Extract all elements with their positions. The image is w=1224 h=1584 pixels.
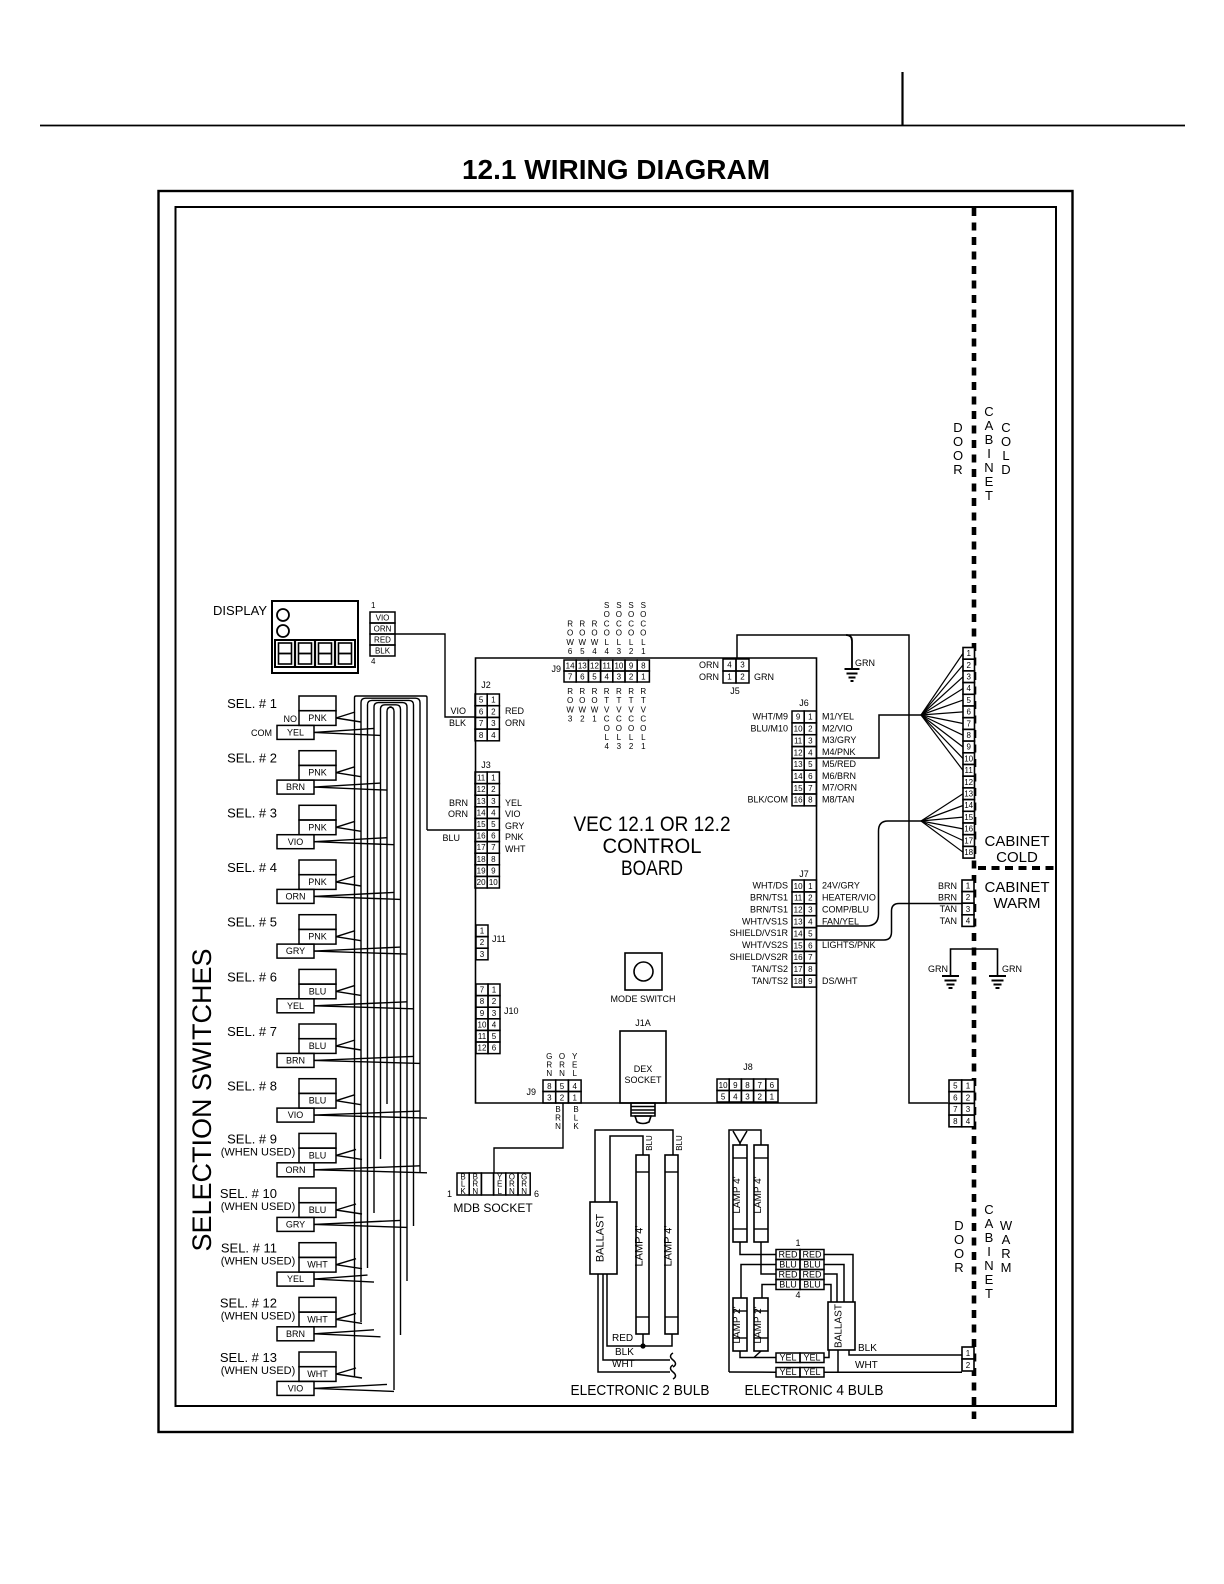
svg-text:B: B: [985, 1230, 994, 1245]
wire BLU row2 to lamp2ft A: [741, 1265, 776, 1299]
wire RED row1 to ballast: [824, 1255, 853, 1303]
svg-text:T: T: [985, 1286, 993, 1301]
svg-text:4: 4: [604, 673, 609, 682]
svg-text:TAN/TS2: TAN/TS2: [752, 976, 788, 986]
terminal block RED/BLU: [776, 1250, 824, 1290]
svg-text:1: 1: [641, 647, 646, 656]
svg-text:5: 5: [953, 1082, 958, 1091]
wires SEL #11: [314, 1259, 374, 1282]
svg-text:9: 9: [480, 1009, 485, 1018]
wire BLU row4 to lamp2ft B: [762, 1285, 776, 1299]
svg-text:2: 2: [492, 997, 497, 1006]
wires SEL #10: [314, 1204, 407, 1227]
svg-text:6: 6: [479, 707, 484, 716]
mode switch button: [634, 962, 653, 981]
svg-text:SEL. # 5: SEL. # 5: [227, 915, 277, 930]
svg-text:8: 8: [966, 731, 971, 740]
svg-text:K: K: [573, 1122, 579, 1131]
svg-text:6: 6: [808, 772, 813, 781]
svg-text:N: N: [509, 1187, 515, 1196]
svg-text:24V/GRY: 24V/GRY: [822, 881, 860, 891]
svg-text:15: 15: [794, 941, 803, 950]
DEX socket screw base: [631, 1103, 655, 1124]
svg-text:W: W: [591, 705, 599, 714]
svg-text:6: 6: [534, 1189, 539, 1199]
svg-text:ORN: ORN: [448, 809, 468, 819]
svg-text:18: 18: [964, 848, 973, 857]
wires SEL #9: [314, 1149, 427, 1172]
svg-text:4: 4: [492, 1020, 497, 1029]
svg-text:L: L: [617, 733, 622, 742]
svg-text:FAN/YEL: FAN/YEL: [822, 916, 859, 926]
svg-text:2: 2: [757, 1093, 762, 1102]
selection switch SEL #6: [277, 969, 336, 1012]
wires SEL #5: [314, 931, 407, 954]
WHT wire: [598, 1274, 670, 1372]
svg-text:WHT: WHT: [612, 1359, 635, 1370]
svg-text:T: T: [985, 488, 993, 503]
svg-text:SEL. # 4: SEL. # 4: [227, 860, 277, 875]
svg-text:MODE SWITCH: MODE SWITCH: [611, 994, 676, 1004]
svg-text:WHT/VS2S: WHT/VS2S: [742, 940, 788, 950]
svg-text:2: 2: [629, 673, 634, 682]
svg-text:8: 8: [808, 796, 813, 805]
svg-text:J9: J9: [526, 1087, 536, 1097]
display connector: [370, 612, 395, 656]
svg-text:7: 7: [479, 719, 484, 728]
svg-text:A: A: [1002, 1232, 1011, 1247]
svg-text:LIGHTS/PNK: LIGHTS/PNK: [822, 940, 876, 950]
svg-text:C: C: [640, 715, 646, 724]
svg-text:O: O: [604, 724, 610, 733]
svg-text:O: O: [579, 696, 585, 705]
svg-text:10: 10: [489, 878, 498, 887]
svg-text:19: 19: [477, 866, 486, 875]
svg-text:1: 1: [641, 673, 646, 682]
lamp 4ft B: [754, 1145, 768, 1242]
svg-text:14: 14: [477, 808, 486, 817]
svg-text:1: 1: [966, 649, 971, 658]
svg-text:W: W: [1000, 1218, 1013, 1233]
svg-text:NO: NO: [284, 714, 298, 724]
svg-text:N: N: [546, 1069, 552, 1078]
svg-text:R: R: [954, 1260, 963, 1275]
svg-text:SEL. # 2: SEL. # 2: [227, 751, 277, 766]
svg-text:7: 7: [808, 784, 813, 793]
ground symbol right GRN: [989, 976, 1006, 988]
svg-text:E: E: [985, 1272, 994, 1287]
svg-text:O: O: [616, 610, 622, 619]
svg-text:O: O: [591, 629, 597, 638]
selection switch SEL #3: [277, 805, 336, 848]
svg-text:PNK: PNK: [308, 713, 327, 723]
wires SEL #8: [314, 1095, 427, 1118]
svg-text:T: T: [616, 696, 621, 705]
svg-text:J3: J3: [481, 760, 491, 770]
svg-text:PNK: PNK: [505, 832, 524, 842]
wire lamp2ftA to YEL row1: [740, 1351, 776, 1358]
svg-text:BLU: BLU: [309, 1150, 327, 1160]
svg-text:BLU: BLU: [675, 1135, 684, 1151]
svg-text:O: O: [953, 448, 963, 463]
svg-text:O: O: [591, 696, 597, 705]
svg-text:SEL. # 9: SEL. # 9: [227, 1131, 277, 1146]
svg-text:7: 7: [966, 719, 971, 728]
svg-text:GRY: GRY: [286, 946, 305, 956]
svg-text:YEL: YEL: [803, 1353, 820, 1363]
cabinet cold/warm dashed boundary (horizontal): [978, 866, 1056, 870]
ground pair bridge wire: [951, 949, 998, 976]
svg-text:S: S: [604, 601, 609, 610]
svg-text:SEL. # 1: SEL. # 1: [227, 696, 277, 711]
svg-text:1: 1: [491, 696, 496, 705]
svg-text:WHT/DS: WHT/DS: [753, 881, 789, 891]
svg-text:3: 3: [740, 661, 745, 670]
svg-text:LAMP 4': LAMP 4': [663, 1225, 675, 1266]
svg-text:DS/WHT: DS/WHT: [822, 976, 858, 986]
page header tick: [901, 72, 903, 126]
selection switch SEL #12: [277, 1297, 336, 1340]
svg-text:N: N: [984, 1258, 993, 1273]
svg-text:4: 4: [808, 917, 813, 926]
svg-text:10: 10: [719, 1081, 728, 1090]
svg-text:V: V: [604, 705, 610, 714]
svg-text:C: C: [640, 619, 646, 628]
svg-text:C: C: [628, 715, 634, 724]
electronic 2 bulb ballast: [590, 1202, 617, 1274]
svg-text:17: 17: [794, 965, 803, 974]
svg-text:10: 10: [964, 754, 973, 763]
svg-text:L: L: [604, 638, 609, 647]
svg-text:4: 4: [727, 661, 732, 670]
svg-text:RED: RED: [505, 706, 525, 716]
svg-text:1: 1: [795, 1238, 800, 1248]
svg-text:B: B: [985, 432, 994, 447]
MDB socket: [457, 1173, 530, 1195]
wire J9 to MDB socket: [494, 1103, 563, 1173]
svg-text:BALLAST: BALLAST: [595, 1214, 607, 1263]
svg-text:3: 3: [966, 673, 971, 682]
svg-text:12: 12: [477, 785, 486, 794]
svg-text:SEL. # 11: SEL. # 11: [221, 1241, 277, 1256]
svg-text:O: O: [640, 629, 646, 638]
lamp 2ft B: [754, 1298, 768, 1351]
svg-text:4: 4: [491, 731, 496, 740]
display LEDs: [277, 609, 289, 621]
svg-text:R: R: [628, 687, 634, 696]
display 7-segment digits: [275, 640, 355, 667]
svg-text:12: 12: [478, 1044, 487, 1053]
svg-text:5: 5: [492, 1032, 497, 1041]
svg-text:2: 2: [629, 742, 634, 751]
svg-text:(WHEN USED): (WHEN USED): [221, 1256, 296, 1268]
svg-text:J6: J6: [799, 698, 809, 708]
svg-text:9: 9: [796, 713, 801, 722]
svg-text:10: 10: [794, 882, 803, 891]
connector J3: [475, 772, 499, 888]
svg-text:3: 3: [491, 797, 496, 806]
svg-text:HEATER/VIO: HEATER/VIO: [822, 893, 876, 903]
svg-text:R: R: [953, 462, 962, 477]
svg-text:C: C: [604, 715, 610, 724]
svg-text:4: 4: [592, 647, 597, 656]
svg-text:R: R: [616, 687, 622, 696]
wire display to J2: [395, 634, 475, 717]
connector J9: [564, 660, 649, 682]
svg-text:WHT: WHT: [307, 1260, 328, 1270]
svg-text:16: 16: [964, 825, 973, 834]
svg-text:RED: RED: [612, 1333, 633, 1344]
svg-text:V: V: [641, 705, 647, 714]
lamp 2ft A: [733, 1298, 747, 1351]
svg-text:SEL. # 13: SEL. # 13: [220, 1350, 277, 1365]
svg-text:O: O: [1001, 434, 1011, 449]
svg-text:WHT: WHT: [307, 1369, 328, 1379]
svg-text:11: 11: [794, 894, 803, 903]
svg-text:ORN: ORN: [286, 892, 306, 902]
svg-text:YEL: YEL: [779, 1353, 796, 1363]
svg-text:L: L: [604, 733, 609, 742]
svg-text:A: A: [985, 418, 994, 433]
svg-text:4: 4: [795, 1290, 800, 1300]
wire lamp2ftB join: [754, 1351, 761, 1358]
svg-text:C: C: [1001, 420, 1010, 435]
svg-text:R: R: [1001, 1246, 1010, 1261]
svg-text:GRN: GRN: [754, 672, 774, 682]
wire WHT to pin2: [824, 1371, 962, 1373]
svg-text:9: 9: [491, 866, 496, 875]
svg-text:M6/BRN: M6/BRN: [822, 771, 856, 781]
svg-text:2: 2: [580, 715, 585, 724]
svg-text:D: D: [954, 1218, 963, 1233]
svg-text:7: 7: [480, 986, 485, 995]
svg-text:3: 3: [745, 1093, 750, 1102]
svg-text:SHIELD/VS2R: SHIELD/VS2R: [729, 952, 788, 962]
wires SEL #12: [314, 1313, 381, 1336]
svg-text:4: 4: [371, 657, 376, 666]
svg-text:6: 6: [492, 1044, 497, 1053]
svg-text:BLK/COM: BLK/COM: [747, 794, 788, 804]
ballast drop to WHT wire: [837, 1350, 839, 1372]
svg-text:13: 13: [794, 917, 803, 926]
svg-text:2: 2: [560, 1094, 565, 1103]
page header rule: [40, 125, 1185, 127]
svg-text:L: L: [1002, 448, 1009, 463]
svg-text:BRN: BRN: [286, 1329, 305, 1339]
svg-text:12.1 WIRING DIAGRAM: 12.1 WIRING DIAGRAM: [462, 154, 770, 185]
svg-text:3: 3: [808, 906, 813, 915]
svg-text:A: A: [985, 1216, 994, 1231]
svg-text:1: 1: [491, 774, 496, 783]
svg-text:5: 5: [966, 696, 971, 705]
svg-text:VIO: VIO: [288, 837, 304, 847]
svg-text:T: T: [629, 696, 634, 705]
svg-text:M1/YEL: M1/YEL: [822, 712, 854, 722]
svg-text:COM: COM: [251, 728, 272, 738]
svg-text:O: O: [628, 610, 634, 619]
svg-text:YEL: YEL: [779, 1367, 796, 1377]
svg-text:5: 5: [808, 929, 813, 938]
svg-text:E: E: [985, 474, 994, 489]
svg-text:2: 2: [629, 647, 634, 656]
svg-text:5: 5: [491, 820, 496, 829]
svg-text:15: 15: [477, 820, 486, 829]
svg-text:2: 2: [808, 894, 813, 903]
svg-text:L: L: [629, 733, 634, 742]
svg-text:BLU: BLU: [803, 1280, 821, 1290]
svg-text:O: O: [616, 629, 622, 638]
svg-text:11: 11: [965, 766, 974, 775]
svg-text:V: V: [616, 705, 622, 714]
svg-text:TAN/TS2: TAN/TS2: [752, 964, 788, 974]
svg-text:L: L: [641, 638, 646, 647]
svg-text:L: L: [629, 638, 634, 647]
svg-text:6: 6: [770, 1081, 775, 1090]
svg-text:PNK: PNK: [308, 877, 327, 887]
svg-text:WHT: WHT: [307, 1314, 328, 1324]
svg-text:3: 3: [617, 647, 622, 656]
svg-text:DEX: DEX: [634, 1064, 653, 1074]
connector J5: [723, 659, 749, 683]
svg-text:C: C: [984, 404, 993, 419]
connector J2: [475, 694, 499, 741]
svg-text:4: 4: [604, 647, 609, 656]
svg-text:2: 2: [740, 673, 745, 682]
svg-text:5: 5: [592, 673, 597, 682]
svg-text:N: N: [521, 1187, 527, 1196]
svg-text:1: 1: [727, 673, 732, 682]
svg-text:2: 2: [966, 1361, 971, 1370]
svg-text:11: 11: [603, 662, 612, 671]
svg-text:1: 1: [808, 713, 813, 722]
svg-text:7: 7: [953, 1105, 958, 1114]
svg-text:J2: J2: [481, 680, 491, 690]
svg-text:W: W: [566, 705, 574, 714]
svg-text:8: 8: [641, 662, 646, 671]
svg-text:YEL: YEL: [287, 1274, 304, 1284]
svg-text:J11: J11: [492, 934, 506, 944]
svg-text:BLU: BLU: [309, 986, 327, 996]
svg-text:9: 9: [808, 977, 813, 986]
svg-text:LAMP 4': LAMP 4': [634, 1225, 646, 1266]
svg-text:R: R: [567, 619, 573, 628]
RED wire: [607, 1274, 672, 1346]
svg-text:BLU: BLU: [779, 1260, 797, 1270]
wire bundle to J3 BLU: [427, 829, 474, 831]
svg-text:ELECTRONIC 2 BULB: ELECTRONIC 2 BULB: [571, 1382, 710, 1399]
svg-text:14: 14: [794, 929, 803, 938]
svg-text:1: 1: [770, 1093, 775, 1102]
svg-text:I: I: [987, 1244, 991, 1259]
svg-text:M2/VIO: M2/VIO: [822, 723, 853, 733]
svg-text:LAMP 2': LAMP 2': [732, 1306, 743, 1343]
svg-text:R: R: [592, 687, 598, 696]
wire bundle J6 motors: [817, 715, 922, 758]
svg-text:14: 14: [964, 801, 973, 810]
svg-text:BLU/M10: BLU/M10: [750, 723, 788, 733]
svg-text:VEC 12.1 OR 12.2: VEC 12.1 OR 12.2: [574, 813, 731, 836]
svg-text:7: 7: [808, 953, 813, 962]
wire lampB to RED row3: [761, 1242, 776, 1274]
wire ballast to lamp2 top: [595, 1130, 673, 1202]
warm cabinet connector (8 pin): [949, 1080, 974, 1127]
svg-text:GRY: GRY: [286, 1220, 305, 1230]
svg-text:VIO: VIO: [450, 706, 466, 716]
svg-text:BRN/TS1: BRN/TS1: [750, 904, 788, 914]
svg-text:L: L: [617, 638, 622, 647]
selection switch SEL #10: [277, 1188, 336, 1231]
svg-text:S: S: [628, 601, 633, 610]
svg-text:14: 14: [794, 772, 803, 781]
svg-text:7: 7: [491, 843, 496, 852]
svg-text:BLK: BLK: [375, 646, 391, 655]
svg-text:(WHEN USED): (WHEN USED): [221, 1201, 296, 1213]
svg-text:J8: J8: [743, 1062, 753, 1072]
svg-text:R: R: [640, 687, 646, 696]
svg-text:10: 10: [478, 1020, 487, 1029]
svg-text:TAN: TAN: [940, 916, 957, 926]
svg-text:BRN: BRN: [938, 881, 957, 891]
selection switch SEL #4: [277, 860, 336, 903]
svg-text:M: M: [1001, 1260, 1012, 1275]
svg-text:O: O: [640, 724, 646, 733]
svg-text:M3/GRY: M3/GRY: [822, 735, 856, 745]
svg-text:13: 13: [964, 790, 973, 799]
svg-text:V: V: [628, 705, 634, 714]
svg-text:1: 1: [808, 882, 813, 891]
svg-text:SEL. # 3: SEL. # 3: [227, 805, 277, 820]
svg-text:L: L: [641, 733, 646, 742]
svg-text:D: D: [1001, 462, 1010, 477]
svg-text:3: 3: [617, 742, 622, 751]
svg-text:(WHEN USED): (WHEN USED): [221, 1365, 296, 1377]
svg-text:4: 4: [572, 1082, 577, 1091]
svg-text:8: 8: [808, 965, 813, 974]
svg-text:11: 11: [477, 774, 486, 783]
svg-text:4: 4: [966, 916, 971, 925]
selection switch SEL #11: [277, 1243, 336, 1286]
svg-text:3: 3: [491, 719, 496, 728]
svg-text:PNK: PNK: [308, 768, 327, 778]
bottom connector (2 pin): [962, 1347, 974, 1371]
svg-text:N: N: [555, 1122, 561, 1131]
svg-text:BLU: BLU: [309, 1041, 327, 1051]
svg-text:BLU: BLU: [803, 1260, 821, 1270]
BLK wire: [603, 1274, 670, 1360]
svg-text:C: C: [616, 715, 622, 724]
svg-text:3: 3: [480, 950, 485, 959]
svg-text:6: 6: [491, 832, 496, 841]
svg-text:SEL. # 7: SEL. # 7: [227, 1024, 277, 1039]
wire BLU row4 to ballast: [824, 1285, 831, 1303]
svg-text:13: 13: [477, 797, 486, 806]
svg-text:SEL. # 12: SEL. # 12: [220, 1295, 277, 1310]
svg-text:GRN: GRN: [855, 658, 875, 668]
svg-text:9: 9: [966, 743, 971, 752]
connector J11: [476, 925, 488, 960]
svg-text:I: I: [987, 446, 991, 461]
wire bundle J7: [817, 821, 922, 926]
svg-text:J5: J5: [730, 686, 740, 696]
wire outer loop to YEL row2: [729, 1371, 776, 1373]
svg-text:5: 5: [721, 1093, 726, 1102]
svg-text:12: 12: [590, 662, 599, 671]
svg-text:VIO: VIO: [505, 809, 521, 819]
svg-text:8: 8: [745, 1081, 750, 1090]
svg-text:PNK: PNK: [308, 932, 327, 942]
wires SEL #7: [314, 1040, 420, 1063]
svg-text:2: 2: [480, 938, 485, 947]
